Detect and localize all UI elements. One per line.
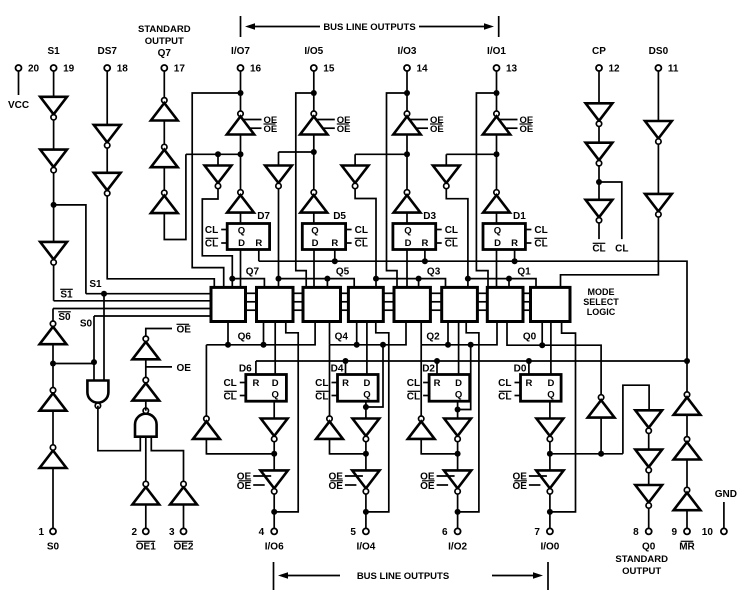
wire OE stub [345,475,363,477]
node pin net [271,509,277,515]
node Q3 row a [373,276,379,282]
wire [457,442,459,471]
wire FF Q output [273,401,275,418]
label OEbar [512,481,527,492]
inverter CP-b [586,143,613,166]
label OEbar [420,481,435,492]
flip-flop D1 [483,224,525,250]
wire [686,510,688,528]
inverter Q0out-b [635,450,662,473]
node R [512,258,518,264]
node IO net [311,90,317,96]
svg-text:17: 17 [174,64,186,75]
tristate buffer IO5 [300,111,327,135]
wire [657,144,659,194]
svg-text:CL: CL [205,239,218,250]
mode select cell 1 [487,287,523,321]
wire Q5 row [279,279,355,288]
wire bus connector [383,292,394,294]
svg-text:OE: OE [512,481,527,492]
inverter Q5 up [300,190,327,213]
wire R drop [514,250,516,262]
wire CL stub [436,229,442,231]
wire bus connector [341,301,349,303]
wire [686,415,688,437]
node MR bottom [684,358,690,364]
pin 16 [238,65,244,71]
wire node to inverter [313,152,315,190]
svg-text:CL: CL [498,378,511,389]
svg-text:R: R [434,378,441,389]
wire [549,442,551,471]
wire inverter to FF Q [240,213,242,224]
wire [598,166,600,200]
svg-text:20: 20 [28,64,40,75]
wire Q3 into cell4 [375,279,377,288]
label CLbar [498,391,511,402]
wire pin drop [406,71,408,114]
svg-text:OE2: OE2 [173,542,193,553]
wire bus connector [341,292,349,294]
inverter OE-b [132,336,159,359]
wire pin drop [496,71,498,114]
svg-text:MODE: MODE [588,287,615,297]
label OE1bar [136,541,156,552]
wire FF D input [274,322,276,375]
wire IO load path [476,93,496,287]
wire [648,473,650,485]
svg-text:Q0: Q0 [523,332,537,343]
wire bus connector [246,309,257,311]
wire CL stub [346,229,352,231]
mode select cell 3 [394,287,430,321]
svg-text:R: R [342,378,349,389]
node Q5 row b [324,276,330,282]
svg-text:Q: Q [404,226,411,237]
node IO net [238,90,244,96]
wire to pin [365,494,367,528]
wire CLbar stub [515,395,521,397]
svg-text:Q2: Q2 [426,332,440,343]
inverter DS7-a [94,125,121,148]
svg-text:2: 2 [131,527,137,538]
flip-flop D0 [521,375,562,402]
wire S1 to NAND [103,294,105,381]
wire IO load path [296,93,314,287]
wire FF D input [240,250,242,288]
flip-flop D3 [393,224,436,250]
flip-flop D7 [227,224,269,250]
node S1 [51,202,57,208]
svg-text:Q: Q [272,390,279,401]
wire master reset line bottom [256,360,687,362]
label Q0 pin [615,542,668,578]
wire [598,127,600,143]
wire Q into cell above [420,322,422,345]
node Q line [225,342,231,348]
svg-text:SELECT: SELECT [583,297,619,307]
label CLbar [315,391,328,402]
bus line outputs top right arrow [419,23,494,30]
buffer S0-b [40,388,67,411]
wire node to inverter [330,439,366,454]
wire bus connector [293,309,303,311]
node output [547,451,553,457]
wire FF D input [406,250,408,288]
wire Q line to inverter [205,345,207,416]
svg-text:GND: GND [715,489,737,500]
label CLbar [355,238,368,249]
svg-text:CL: CL [315,392,328,403]
wire Q line to inverter [420,345,422,416]
inverter Q5 down [265,166,292,189]
wire pin drop [313,71,315,114]
wire Q3 into cell3 [418,279,420,288]
svg-text:16: 16 [250,64,262,75]
mode select cell 4 [348,287,383,321]
wire S1 inverted down [53,265,55,301]
svg-text:Q4: Q4 [335,332,349,343]
wire CLbar stub [221,242,227,244]
svg-text:OUTPUT: OUTPUT [622,566,661,577]
node Q output tap [455,407,461,413]
pin 3 [181,528,187,534]
node IO net [404,90,410,96]
wire pin11 [657,71,659,121]
svg-text:D: D [272,378,279,389]
wire OEbar stub [437,484,449,486]
pin 12 [596,65,602,71]
wire pin2 up [145,505,147,529]
inverter Q0out-a [635,410,662,433]
wire bus connector [383,301,394,303]
node Q internal [238,151,244,157]
wire inverter to FF Q [313,213,315,224]
wire OE stub [529,475,547,477]
svg-text:D: D [238,238,245,249]
wire Q into cell above [329,322,331,345]
wire FF D input [458,322,460,375]
svg-text:OE: OE [520,124,534,135]
wire bus connector [523,301,531,303]
wire bus connector [477,301,487,303]
wire DS7 to mode cell 7 [107,196,214,287]
svg-text:I/O7: I/O7 [231,46,250,57]
svg-text:Q5: Q5 [336,267,350,278]
bus line outputs bottom tick left [273,562,275,590]
svg-text:13: 13 [506,64,518,75]
wire FF D input [313,250,315,288]
svg-text:I/O0: I/O0 [540,542,559,553]
wire node line IO0 [550,453,623,455]
wire Q1 into cell1 [508,279,510,288]
wire [365,442,367,471]
pin 15 [311,65,317,71]
svg-text:Q1: Q1 [517,267,531,278]
inverter DS7-b [94,173,121,196]
buffer S0-a [40,445,67,468]
svg-text:D2: D2 [422,364,435,375]
svg-text:12: 12 [609,64,621,75]
mode select cell 2 [442,287,478,321]
inverter Q up [193,416,220,439]
wire OE1 to G2 [145,437,147,482]
wire tristate input [313,135,315,153]
svg-text:OE: OE [420,481,435,492]
wire pin12 [598,71,600,103]
wire node line IO2 [421,453,457,455]
svg-text:OE: OE [430,124,444,135]
wire to pin [457,494,459,528]
svg-text:S0: S0 [58,312,71,323]
pin 18 [104,65,110,71]
svg-text:5: 5 [350,527,356,538]
wire bus connector [477,309,487,311]
wire Q line to inverter [329,345,331,416]
label CLbar [407,391,420,402]
svg-text:DS7: DS7 [97,46,117,57]
wire CL stub [221,229,227,231]
bus line outputs bottom right arrow [492,572,543,579]
svg-text:D7: D7 [257,211,270,222]
inverter I/O4 out [353,419,380,442]
label CLbar [445,238,458,249]
pin 6 [455,528,461,534]
svg-text:S0: S0 [47,542,60,553]
svg-text:R: R [252,378,259,389]
wire Q into cell [227,322,229,345]
wire node to inverter [406,152,408,190]
wire Q0 hold line [507,322,601,395]
buffer MR-c [674,487,701,510]
wire FF D input [366,322,368,375]
node Q0 line [539,342,545,348]
svg-text:7: 7 [534,527,540,538]
wire FF Q output [365,401,367,418]
node Q1 row b [506,276,512,282]
svg-text:Q7: Q7 [246,267,260,278]
wire S1bar bus [54,300,211,302]
wire Q7 into cell7 [231,279,233,288]
inverter Q1 up [483,190,510,213]
node Q output tap [363,404,369,410]
svg-text:D: D [547,378,554,389]
wire [163,167,165,190]
svg-text:CP: CP [592,46,606,57]
label OE2bar [173,541,193,552]
wire OE2 to G2 [151,437,183,482]
svg-text:D: D [405,238,412,249]
node S0 [50,361,56,367]
wire IO0 load feedback [550,322,576,512]
wire pin17 [163,71,165,98]
wire IO load feedback [366,322,389,512]
inverter S0-c [40,321,67,344]
wire Q5 into cell6 [278,279,280,288]
node pin net [363,509,369,515]
wire R riser [345,361,347,375]
wire MR line [686,361,688,392]
wire Q3bar staircase [355,189,376,279]
wire OEbar stub [146,329,172,337]
wire OE stub [437,475,455,477]
wire CL stub [515,382,521,384]
label S0bar [58,312,71,323]
svg-text:CL: CL [615,244,628,255]
svg-text:BUS LINE OUTPUTS: BUS LINE OUTPUTS [357,571,449,582]
pin 10 [721,528,727,534]
svg-text:OE: OE [264,124,278,135]
node R [422,258,428,264]
label S1bar [60,289,73,300]
pin 17 [161,65,167,71]
node IO net [494,90,500,96]
pin 7 [547,528,553,534]
wire bus connector [293,301,303,303]
mode select cell 7 [211,287,246,321]
wire tristate input [240,135,242,155]
wire bus connector [246,292,257,294]
wire G1 output to G2 [98,406,140,451]
wire S0 bus [94,315,211,317]
wire pin19 to inverter [53,71,55,97]
node Q internal [404,151,410,157]
svg-text:4: 4 [259,527,265,538]
wire CLbar stub [332,395,338,397]
pin 8 [646,528,652,534]
inverter Q0 up [588,395,615,418]
node Q internal [311,149,317,155]
svg-text:Q: Q [547,390,554,401]
svg-text:R: R [421,238,428,249]
tristate buffer I/O6 [261,470,288,494]
wire CLbar stub [598,223,600,239]
pin 14 [404,65,410,71]
wire to pin [549,494,551,528]
wire OEbar stub [506,127,518,129]
mode select cell 5 [303,287,341,321]
node output [455,451,461,457]
wire Q feedback line [421,322,497,345]
wire Q1 row [468,279,536,288]
svg-text:D1: D1 [513,211,526,222]
tristate buffer I/O2 [444,470,471,494]
svg-text:I/O2: I/O2 [448,542,467,553]
svg-text:CL: CL [223,392,236,403]
wire bus connector [246,301,257,303]
wire D6 R riser [255,361,257,375]
wire pin drop [240,71,242,114]
node R [526,358,532,364]
pin 11 [655,65,661,71]
wire Q5bar drop [278,189,280,279]
node output [271,451,277,457]
wire bus connector [293,292,303,294]
wire OEbar stub [250,127,262,129]
svg-text:CL: CL [355,239,368,250]
wire Q0 into cell0 [541,322,543,346]
svg-text:CL: CL [205,225,218,236]
node CL [596,179,602,185]
label MODE SELECT LOGIC [583,287,619,317]
svg-text:D: D [312,238,319,249]
svg-text:3: 3 [169,527,175,538]
svg-text:OE: OE [177,325,192,336]
mode select cell 6 [257,287,294,321]
inverter DS0-a [645,121,672,144]
label OEbar [237,481,252,492]
wire node line Q3 [355,153,407,155]
wire [53,173,55,242]
inverter Q7 down [205,166,232,189]
svg-text:D: D [363,378,370,389]
inverter CP-c [586,200,613,223]
inverter Q up [408,416,435,439]
node R [343,358,349,364]
svg-text:CL: CL [445,239,458,250]
wire CLbar stub [346,242,352,244]
tristate buffer IO1 [483,111,510,135]
label OEbar [264,124,278,135]
bus line outputs top tick left [240,16,242,37]
wire [217,154,219,165]
wire DS0 to mode cell 0 [561,217,659,287]
pin 1 [50,528,56,534]
inverter I/O0 out [537,419,564,442]
label CLbar net [592,243,605,254]
wire S0bar bus [53,308,211,310]
wire OE stub [317,119,335,121]
inverter S1-c [40,242,67,265]
inverter Q1 down [433,166,460,189]
node Q line [445,342,451,348]
wire [53,120,55,150]
wire Q into cell [447,322,449,345]
inverter Q0out-c [635,485,662,508]
inverter Q3 up [394,190,421,213]
tristate buffer I/O0 [536,470,563,494]
wire IO load path [387,93,408,287]
inverter Q7 up [227,190,254,213]
flip-flop D4 [338,375,379,402]
svg-text:VCC: VCC [8,100,29,111]
node Q1 row a [465,276,471,282]
wire node to inverter [206,439,274,454]
wire Q5 into cell5 [326,279,328,288]
svg-text:OE1: OE1 [136,542,156,553]
svg-text:Q: Q [311,226,318,237]
wire tristate input [496,135,498,155]
wire R riser [528,361,530,375]
svg-text:10: 10 [702,527,714,538]
label OEbar [337,124,351,135]
wire [600,418,602,454]
label CLbar [223,391,236,402]
label MRbar [679,541,695,552]
wire [163,121,165,145]
svg-text:S0: S0 [80,319,93,330]
buffer OE2 [170,481,197,504]
wire [278,152,280,166]
wire S0 to NAND [93,362,95,380]
bus line outputs bottom left arrow [278,572,340,579]
label CLbar [205,238,218,249]
wire CLbar stub [240,395,246,397]
wire G2 out to inverter [145,401,147,411]
wire OE stub [500,119,518,121]
svg-text:1: 1 [38,527,44,538]
svg-text:MR: MR [679,542,695,553]
